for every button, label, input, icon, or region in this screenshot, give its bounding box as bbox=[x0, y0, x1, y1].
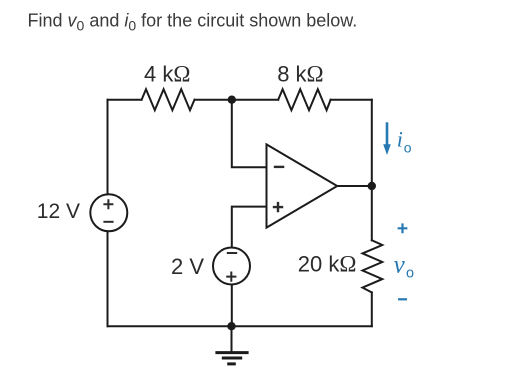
ground bars bbox=[215, 353, 248, 364]
wire: 20k to bottom bbox=[371, 292, 373, 326]
wire: right vertical top (to output node) bbox=[371, 100, 373, 186]
svg-text:v: v bbox=[394, 252, 406, 279]
wire: output node to 20k resistor bbox=[371, 186, 373, 240]
op-amp U1 triangle bbox=[267, 144, 338, 227]
resistor R2 8k zigzag bbox=[278, 89, 330, 110]
node A junction dot bbox=[228, 96, 236, 104]
svg-text:2 V: 2 V bbox=[171, 254, 204, 279]
resistor R3 20k vertical zigzag bbox=[363, 240, 383, 292]
output node junction dot bbox=[368, 182, 376, 190]
wire: 8k to right vertical bbox=[331, 99, 372, 101]
op-amp input signs bbox=[273, 167, 285, 212]
V2 polarity signs bbox=[226, 253, 237, 282]
wire: node A to 8k lead bbox=[232, 99, 278, 101]
svg-text:o: o bbox=[406, 266, 414, 282]
svg-text:4 kΩ: 4 kΩ bbox=[144, 62, 190, 87]
V1 polarity signs bbox=[103, 199, 113, 222]
wire: bottom horizontal bbox=[108, 325, 372, 327]
svg-text:20 kΩ: 20 kΩ bbox=[298, 252, 357, 277]
label + (vo) bbox=[398, 223, 408, 233]
svg-text:12 V: 12 V bbox=[37, 200, 80, 223]
voltage source V1 12V circle bbox=[90, 194, 127, 231]
wire: left vertical (12V branch) bbox=[107, 100, 109, 327]
ground node junction dot bbox=[227, 322, 235, 330]
svg-text:o: o bbox=[404, 140, 412, 156]
svg-text:8 kΩ: 8 kΩ bbox=[277, 62, 323, 87]
wire: top-left horizontal lead bbox=[108, 99, 142, 101]
wire: non-inverting input to 2V source bbox=[232, 207, 267, 248]
ground stem bbox=[231, 326, 233, 352]
voltage source V2 2V circle bbox=[213, 248, 250, 285]
svg-text:i: i bbox=[397, 126, 403, 151]
wire: between 4k and node A bbox=[195, 99, 232, 101]
label - (vo) bbox=[398, 298, 407, 300]
wire: op-amp output bbox=[337, 185, 372, 187]
current arrow io bbox=[383, 122, 391, 155]
wire: 2V source bottom to ground node bbox=[231, 285, 233, 327]
wire: node A down to inverting input bbox=[232, 100, 267, 168]
resistor R1 4k zigzag bbox=[142, 89, 195, 110]
